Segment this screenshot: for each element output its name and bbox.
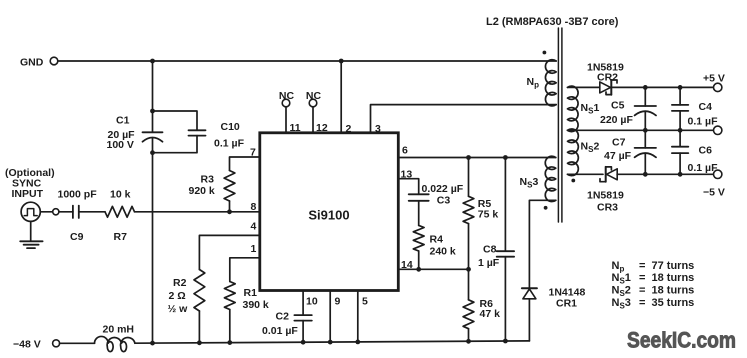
svg-text:−5 V: −5 V (703, 187, 725, 199)
svg-text:CR2: CR2 (597, 72, 618, 84)
svg-text:240 k: 240 k (430, 246, 456, 258)
svg-text:R2: R2 (173, 277, 187, 289)
wire C1 to bus (152, 153, 154, 343)
svg-text:CR1: CR1 (556, 298, 577, 310)
wire R5 bottom lead (468, 224, 470, 270)
wire pin 7 (230, 157, 260, 171)
wire pin 2 (340, 61, 342, 133)
svg-text:1000 pF: 1000 pF (58, 189, 98, 201)
junction R5 top (466, 155, 471, 160)
pin label 2 (346, 123, 352, 135)
diode CR3 1N5819 (600, 167, 617, 182)
phase dot Ns2 (571, 179, 575, 183)
svg-text:C4: C4 (699, 101, 713, 113)
capacitor C2 (294, 315, 311, 321)
wire CR1 to Ns3 (529, 200, 548, 288)
wire Ns3 bottom lead (549, 199, 556, 201)
capacitor C8 (497, 251, 514, 257)
svg-text:10: 10 (306, 296, 318, 308)
junction R4/pin14 (416, 267, 421, 272)
svg-text:4: 4 (251, 221, 257, 233)
label Si9100 (308, 208, 349, 223)
svg-text:C2: C2 (276, 311, 290, 323)
svg-text:C7: C7 (612, 137, 626, 149)
svg-text:C1: C1 (116, 115, 130, 127)
svg-text:R7: R7 (114, 231, 128, 243)
label R7 (114, 231, 128, 243)
svg-text:11: 11 (290, 122, 301, 134)
svg-text:0.1 µF: 0.1 µF (688, 116, 719, 128)
resistor R2 (194, 270, 205, 312)
label 10 k (110, 189, 131, 201)
wire pin 5 (357, 291, 359, 342)
svg-text:14: 14 (401, 259, 413, 271)
label R5 (478, 198, 499, 221)
svg-text:=: = (639, 272, 645, 284)
svg-text:NC: NC (279, 90, 295, 102)
primary winding Np (545, 60, 556, 106)
pin NC 12 terminal (306, 90, 322, 107)
wire pin 11 stub (285, 107, 287, 133)
capacitor C10 (189, 130, 206, 135)
label R3 (189, 174, 215, 198)
junction C8 bus (503, 339, 508, 344)
svg-text:INPUT: INPUT (12, 188, 44, 200)
junction C2 bus (301, 340, 306, 345)
wire -48V to L1 (60, 342, 95, 344)
label CR1 (549, 287, 586, 310)
wire pin 9 (329, 291, 331, 343)
svg-text:1 µF: 1 µF (478, 257, 500, 269)
svg-text:100 V: 100 V (107, 139, 134, 151)
label Np (527, 76, 540, 90)
capacitor C4 (672, 87, 688, 130)
wire C10 loop top (153, 111, 198, 130)
junction C1/C10 top (150, 109, 155, 114)
wire pin 4 (199, 235, 259, 269)
wire C8 upper (504, 158, 506, 252)
svg-text:7: 7 (250, 147, 256, 159)
label C1 (107, 115, 136, 152)
svg-text:NC: NC (306, 90, 322, 102)
label CR3 (587, 190, 624, 214)
pin NC 11 terminal (279, 90, 295, 107)
resistor R3 (224, 171, 235, 202)
svg-text:0.01 µF: 0.01 µF (262, 325, 298, 337)
svg-text:1: 1 (251, 243, 257, 255)
svg-text:R1: R1 (244, 287, 258, 299)
svg-text:0.1 µF: 0.1 µF (214, 138, 245, 150)
junction pin5 bus (355, 340, 360, 345)
svg-text:77 turns: 77 turns (652, 260, 695, 272)
pin label 6 (402, 145, 408, 157)
resistor R6 (463, 300, 474, 329)
label C7 (604, 137, 632, 163)
source sync generator (21, 202, 40, 221)
label 1000 pF (58, 189, 98, 201)
svg-text:20 mH: 20 mH (103, 324, 135, 336)
svg-text:35 turns: 35 turns (652, 297, 695, 309)
wire R3 bottom (229, 201, 231, 212)
inductor L1 20 mH (94, 336, 134, 351)
wire CR3 to -5V (617, 173, 714, 175)
label C4 (688, 101, 719, 128)
svg-text:L2 (RM8PA630 -3B7 core): L2 (RM8PA630 -3B7 core) (486, 16, 619, 28)
wire pin 6 (398, 157, 556, 159)
junction C8 top (503, 155, 508, 160)
label L2 (486, 16, 619, 28)
junction C1 bus (150, 341, 155, 346)
svg-text:13: 13 (401, 169, 413, 181)
junction C4 bottom (678, 128, 683, 133)
svg-text:R4: R4 (430, 234, 444, 246)
wire pin 12 stub (312, 107, 314, 133)
pin label 5 (362, 296, 368, 308)
junction pin9 bus (328, 340, 333, 345)
svg-text:12: 12 (316, 122, 328, 134)
wire R7 to pin 8 (135, 211, 260, 213)
svg-text:18 turns: 18 turns (652, 285, 695, 297)
wire pin 3 (371, 105, 557, 133)
capacitor C3 (409, 194, 429, 201)
wire C9 to R7 (79, 211, 105, 213)
label R1 (243, 287, 269, 311)
junction R6 bus (466, 339, 471, 344)
svg-text:CR3: CR3 (597, 202, 618, 214)
label optional sync input (5, 167, 55, 200)
winding Ns1 (568, 86, 579, 131)
wire source to node (40, 211, 52, 213)
svg-text:220 µF: 220 µF (600, 114, 633, 126)
wire pin 1 (230, 258, 260, 282)
svg-text:3: 3 (375, 123, 381, 135)
label C9 (70, 231, 84, 243)
pin label 1 (251, 243, 257, 255)
wire C2 to bus (302, 321, 304, 343)
svg-text:390 k: 390 k (243, 299, 269, 311)
junction R5/R6 (466, 267, 471, 272)
core L2 (558, 28, 562, 222)
label C8 (478, 244, 500, 270)
label Ns2 (581, 141, 600, 155)
note turns table (612, 260, 695, 311)
wire CR2 to +5V (611, 86, 714, 88)
junction C5 top (643, 85, 648, 90)
label C5 (600, 100, 633, 127)
wire C8 to bus (504, 257, 506, 341)
pin label 9 (335, 296, 341, 308)
wire pin 14 (398, 268, 468, 270)
svg-text:1N5819: 1N5819 (587, 190, 624, 202)
wire pin 10 upper (302, 291, 304, 316)
pin label 3 (375, 123, 381, 135)
terminal -5 V (703, 170, 725, 198)
pin label 12 (316, 122, 328, 134)
terminal common (714, 126, 722, 134)
svg-text:C6: C6 (699, 145, 713, 157)
pin label 10 (306, 296, 318, 308)
ground sync (20, 221, 42, 248)
svg-text:6: 6 (402, 145, 408, 157)
junction C1 top feed (150, 59, 155, 64)
pin label 7 (250, 147, 256, 159)
label C2 (262, 311, 298, 338)
wire C1 branch upper (152, 61, 154, 132)
label Ns3 (520, 176, 539, 190)
phase dot Np (543, 51, 547, 55)
junction C4 top (678, 85, 683, 90)
wire Ns1 to CR2 (568, 86, 600, 88)
terminal +5 V (703, 73, 725, 92)
wire R1 to bus (229, 310, 231, 343)
resistor R4 (413, 225, 424, 251)
svg-text:C5: C5 (611, 100, 625, 112)
capacitor C7 (635, 130, 656, 174)
terminal sync node (53, 209, 59, 215)
svg-text:Si9100: Si9100 (308, 208, 349, 223)
svg-text:2: 2 (346, 123, 352, 135)
terminal -48 V (13, 338, 60, 350)
label C10 (214, 121, 245, 150)
capacitor C9 (73, 206, 79, 218)
svg-text:C9: C9 (70, 231, 84, 243)
label R6 (480, 298, 501, 320)
svg-text:47 k: 47 k (480, 308, 501, 320)
svg-text:75 k: 75 k (478, 209, 499, 221)
label R4 (430, 234, 456, 258)
pin label 14 (401, 259, 413, 271)
winding Ns2 (568, 129, 579, 176)
resistor R5 (463, 196, 474, 223)
svg-text:GND: GND (20, 57, 44, 69)
svg-text:½ w: ½ w (168, 303, 189, 315)
pin label 4 (251, 221, 257, 233)
svg-text:920 k: 920 k (189, 185, 215, 197)
wire bus to CR1 (528, 299, 530, 341)
wire bottom bus (135, 341, 530, 343)
svg-text:=: = (639, 260, 645, 272)
svg-text:SeekIC.com: SeekIC.com (627, 328, 736, 353)
wire R6 to bus (468, 329, 470, 342)
terminal GND (20, 57, 58, 69)
wire R4 bottom (418, 251, 420, 269)
pin label 13 (401, 169, 413, 181)
svg-text:C10: C10 (221, 121, 240, 133)
label Ns1 (581, 102, 600, 116)
label R2 (168, 277, 189, 315)
capacitor C1 (143, 132, 163, 152)
svg-text:9: 9 (335, 296, 341, 308)
svg-text:=: = (639, 285, 645, 297)
junction R2 bus (197, 340, 202, 345)
junction R3/pin8 (227, 209, 232, 214)
wire Ns2 to CR3 (568, 173, 604, 175)
diode CR1 1N4148 (522, 288, 537, 299)
pin label 11 (290, 122, 301, 134)
diode CR2 1N5819 (600, 80, 617, 95)
svg-text:10 k: 10 k (110, 189, 131, 201)
junction C1/C10 bottom (150, 150, 155, 155)
phase dot Ns3 (544, 206, 548, 210)
label C3 (422, 183, 464, 207)
wire node to C9 (59, 211, 73, 213)
label C6 (688, 145, 719, 175)
junction C5 bottom (643, 128, 648, 133)
wire R5 top lead (468, 158, 470, 197)
wire GND rail (58, 60, 556, 62)
wire R6 top lead (468, 269, 470, 300)
watermark SeekIC.com (627, 328, 736, 353)
svg-text:2 Ω: 2 Ω (169, 290, 186, 302)
svg-text:5: 5 (362, 296, 368, 308)
svg-text:−48 V: −48 V (13, 338, 41, 350)
label 20 mH (103, 324, 135, 336)
junction pin2 tap (339, 59, 344, 64)
wire C3 to R4 (418, 201, 420, 226)
wire mid rail (568, 129, 714, 131)
svg-text:47 µF: 47 µF (604, 150, 632, 162)
op-amp U1 Si9100 box (260, 133, 399, 291)
svg-text:+5 V: +5 V (703, 73, 725, 85)
capacitor C5 (635, 87, 656, 130)
wire C10 loop bottom (153, 136, 198, 153)
capacitor C6 (672, 130, 688, 174)
wire pin 13 (398, 179, 418, 195)
label CR2 (587, 62, 624, 84)
pin label 8 (251, 201, 257, 213)
resistor R7 (105, 206, 135, 217)
junction C6 bottom (678, 172, 683, 177)
svg-text:C3: C3 (437, 195, 451, 207)
winding Ns3 (545, 156, 556, 201)
resistor R1 (224, 282, 235, 310)
svg-text:=: = (639, 297, 645, 309)
junction R1 bus (227, 340, 232, 345)
svg-text:C8: C8 (483, 244, 497, 256)
svg-text:18 turns: 18 turns (652, 272, 695, 284)
svg-text:0.022 µF: 0.022 µF (422, 183, 464, 195)
junction C7 bottom (643, 172, 648, 177)
svg-text:R3: R3 (201, 174, 215, 186)
wire R2 to bus (198, 311, 200, 343)
